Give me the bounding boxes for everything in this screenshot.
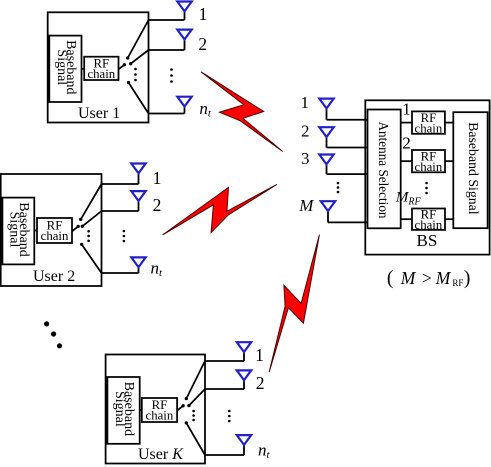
svg-text:chain: chain	[415, 218, 443, 232]
svg-text:Baseband Signal: Baseband Signal	[466, 122, 481, 215]
svg-text:nt: nt	[258, 440, 271, 461]
svg-text:1: 1	[153, 168, 162, 188]
svg-text:User 2: User 2	[33, 268, 75, 285]
svg-text:BasebandSignal: BasebandSignal	[7, 202, 31, 256]
svg-text:BS: BS	[417, 231, 438, 250]
svg-text:1: 1	[255, 345, 264, 365]
svg-text:1: 1	[402, 99, 411, 118]
svg-text:chain: chain	[415, 160, 443, 174]
svg-text:User K: User K	[138, 446, 184, 463]
svg-text:Antenna Selection: Antenna Selection	[376, 121, 391, 218]
svg-text:(M>MRF): (M>MRF)	[387, 268, 471, 289]
svg-text:nt: nt	[151, 259, 164, 280]
svg-text:1: 1	[199, 4, 208, 24]
svg-text:2: 2	[256, 373, 265, 393]
svg-text:2: 2	[402, 133, 411, 152]
svg-text:2: 2	[153, 195, 162, 215]
svg-text:nt: nt	[199, 99, 212, 120]
svg-text:3: 3	[301, 149, 310, 168]
svg-text:MRF: MRF	[395, 190, 422, 208]
svg-text:2: 2	[198, 34, 207, 54]
svg-text:BasebandSignal: BasebandSignal	[54, 40, 78, 94]
svg-text:BasebandSignal: BasebandSignal	[112, 382, 136, 436]
svg-text:chain: chain	[415, 121, 443, 135]
svg-text:chain: chain	[87, 67, 115, 81]
svg-text:User 1: User 1	[78, 105, 120, 122]
svg-text:2: 2	[301, 122, 310, 141]
svg-text:chain: chain	[146, 409, 174, 423]
svg-text:M: M	[298, 196, 314, 215]
svg-text:1: 1	[300, 93, 309, 112]
svg-text:chain: chain	[41, 229, 69, 243]
